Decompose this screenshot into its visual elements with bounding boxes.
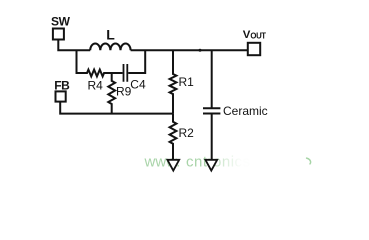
svg-text:R9: R9 (116, 85, 132, 99)
svg-text:C4: C4 (130, 78, 146, 92)
svg-text:R1: R1 (179, 75, 195, 89)
svg-text:FB: FB (54, 78, 70, 92)
svg-text:Ceramic: Ceramic (223, 104, 268, 118)
svg-text:L: L (106, 26, 115, 42)
svg-text:R2: R2 (179, 126, 195, 140)
svg-text:SW: SW (51, 15, 71, 29)
svg-text:VOUT: VOUT (243, 29, 267, 41)
svg-text:R4: R4 (88, 78, 104, 92)
